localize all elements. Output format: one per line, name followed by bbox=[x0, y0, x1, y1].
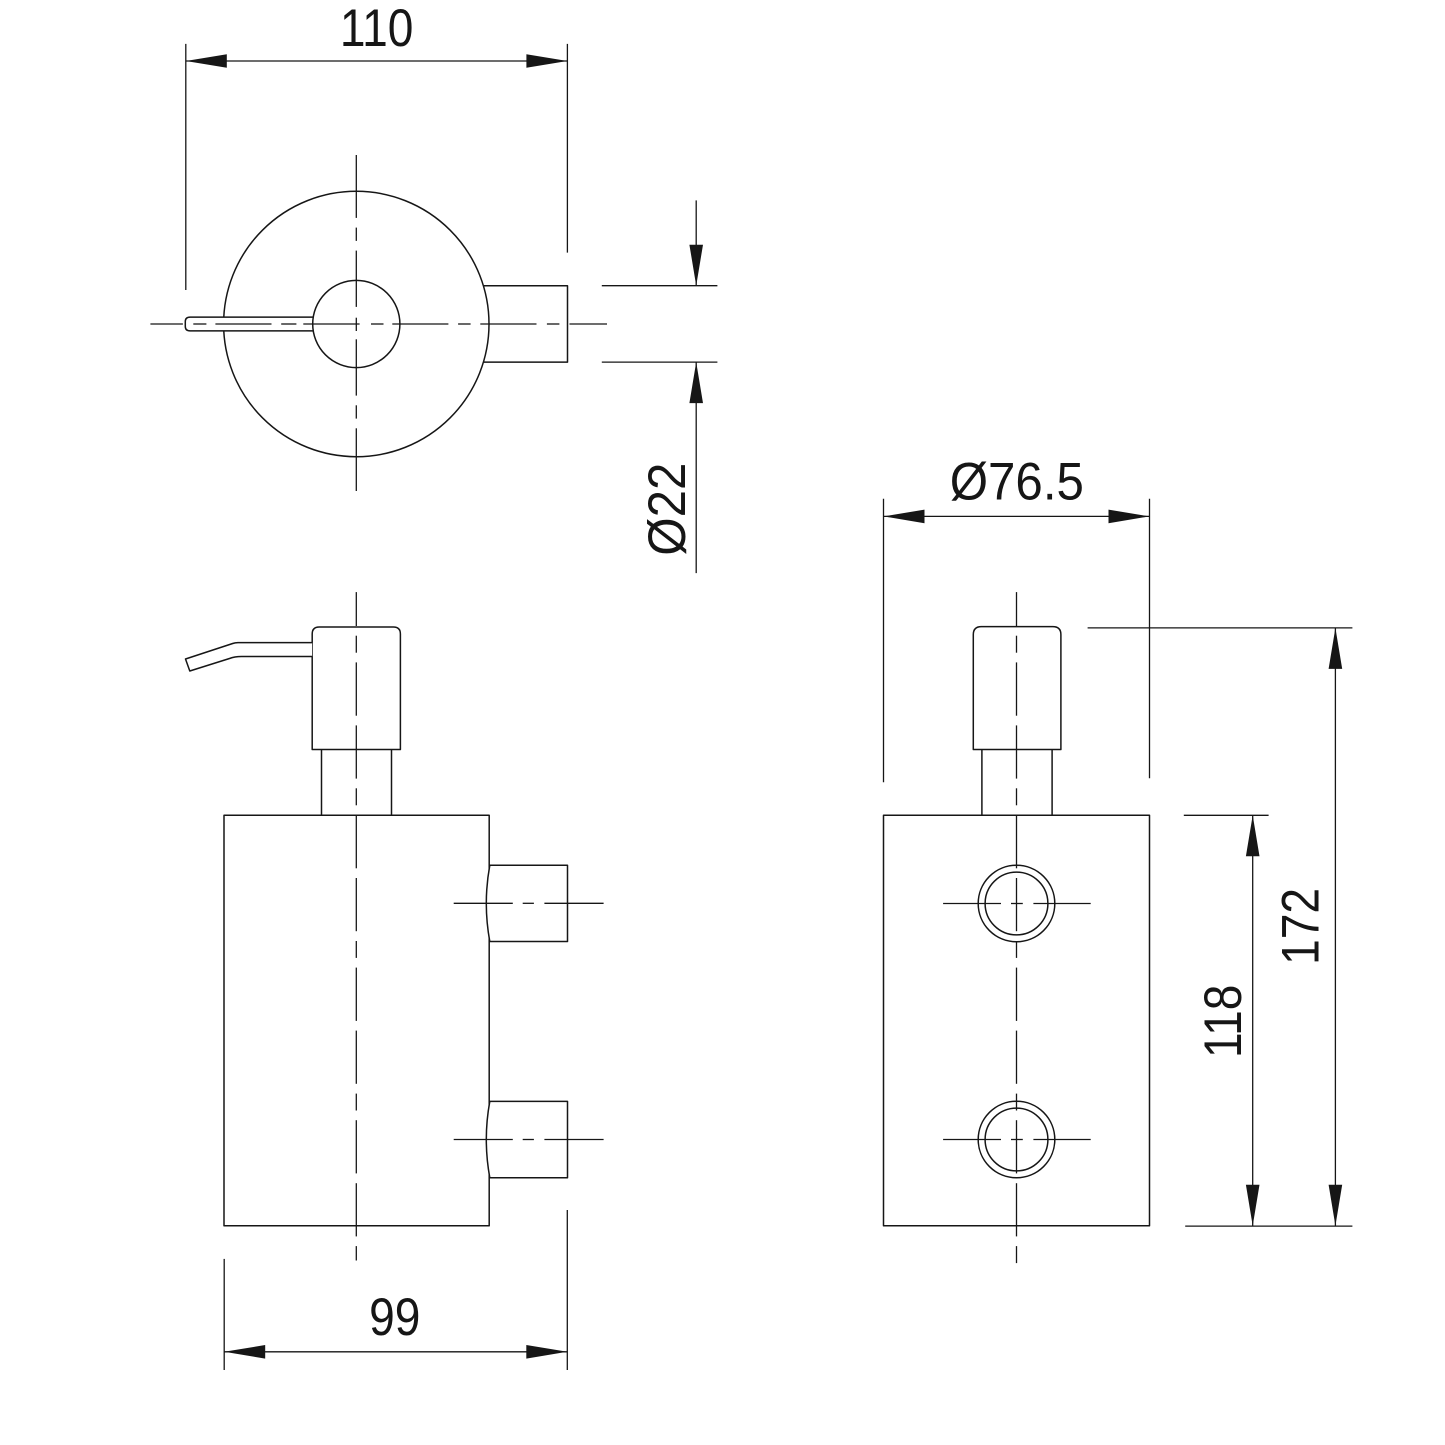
svg-text:172: 172 bbox=[1270, 888, 1330, 965]
svg-text:118: 118 bbox=[1193, 985, 1253, 1058]
svg-text:110: 110 bbox=[340, 0, 413, 58]
svg-text:Ø76.5: Ø76.5 bbox=[950, 452, 1084, 511]
svg-text:Ø22: Ø22 bbox=[637, 463, 696, 556]
svg-text:99: 99 bbox=[369, 1287, 420, 1347]
